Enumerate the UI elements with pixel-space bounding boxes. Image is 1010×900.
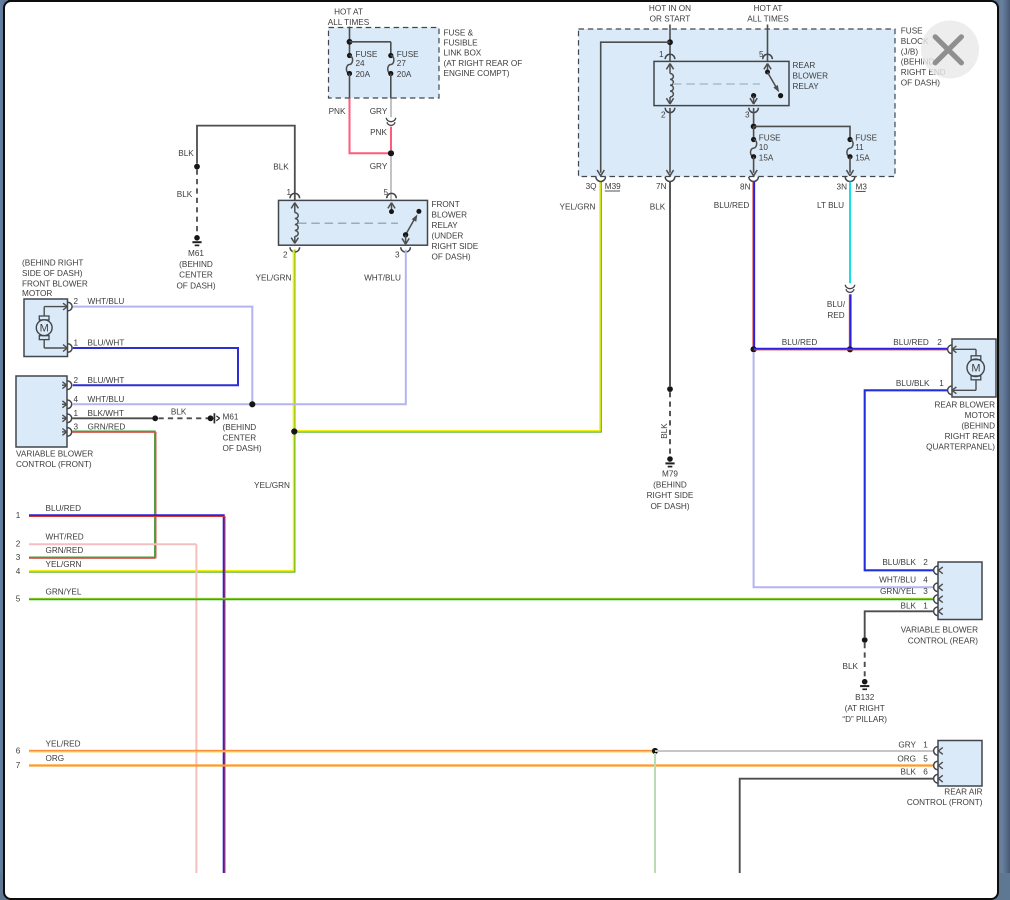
- svg-text:BLK: BLK: [273, 163, 289, 172]
- svg-text:ORG: ORG: [46, 754, 65, 763]
- svg-text:VARIABLE BLOWER: VARIABLE BLOWER: [16, 449, 93, 458]
- svg-text:BLK: BLK: [178, 149, 194, 158]
- svg-text:FUSE: FUSE: [759, 133, 781, 142]
- svg-text:GRN/RED: GRN/RED: [88, 423, 126, 432]
- svg-text:M39: M39: [605, 182, 621, 191]
- svg-text:PNK: PNK: [329, 107, 346, 116]
- svg-text:RELAY: RELAY: [432, 221, 459, 230]
- svg-text:BLK: BLK: [171, 407, 187, 416]
- svg-text:BLK: BLK: [843, 662, 859, 671]
- svg-text:OF DASH): OF DASH): [223, 444, 262, 453]
- svg-text:BLU/BLK: BLU/BLK: [882, 558, 916, 567]
- svg-text:3: 3: [745, 110, 750, 119]
- svg-text:M: M: [971, 363, 980, 375]
- svg-text:M79: M79: [662, 470, 678, 479]
- svg-text:5: 5: [16, 595, 21, 604]
- svg-text:(BEHIND: (BEHIND: [653, 480, 687, 489]
- svg-text:RIGHT REAR: RIGHT REAR: [945, 432, 995, 441]
- svg-text:8N: 8N: [740, 183, 751, 192]
- svg-text:2: 2: [74, 376, 79, 385]
- svg-text:BLU/RED: BLU/RED: [46, 504, 82, 513]
- svg-text:GRN/YEL: GRN/YEL: [46, 588, 82, 597]
- svg-text:5: 5: [383, 188, 388, 197]
- svg-text:BLOWER: BLOWER: [432, 211, 468, 220]
- svg-text:(UNDER: (UNDER: [432, 232, 464, 241]
- svg-text:10: 10: [759, 143, 769, 152]
- svg-text:BLU/RED: BLU/RED: [714, 201, 750, 210]
- svg-text:GRY: GRY: [370, 107, 388, 116]
- svg-text:7N: 7N: [656, 182, 667, 191]
- svg-text:CONTROL (FRONT): CONTROL (FRONT): [907, 798, 983, 807]
- svg-text:27: 27: [397, 59, 407, 68]
- svg-text:4: 4: [923, 575, 928, 584]
- svg-text:4: 4: [16, 567, 21, 576]
- svg-text:GRY: GRY: [370, 162, 388, 171]
- svg-text:3: 3: [16, 553, 21, 562]
- svg-text:VARIABLE BLOWER: VARIABLE BLOWER: [901, 626, 978, 635]
- svg-text:M: M: [40, 323, 49, 335]
- svg-text:BLK: BLK: [650, 203, 666, 212]
- svg-text:BLU/WHT: BLU/WHT: [88, 376, 125, 385]
- svg-text:WHT/BLU: WHT/BLU: [88, 297, 125, 306]
- svg-text:FRONT: FRONT: [432, 200, 460, 209]
- svg-text:PNK: PNK: [370, 128, 387, 137]
- svg-text:FUSE: FUSE: [901, 27, 923, 36]
- svg-text:BLU/: BLU/: [827, 300, 846, 309]
- svg-text:BLU/BLK: BLU/BLK: [896, 379, 930, 388]
- svg-text:RIGHT SIDE: RIGHT SIDE: [647, 491, 694, 500]
- svg-text:5: 5: [923, 754, 928, 763]
- svg-text:1: 1: [659, 50, 664, 59]
- svg-text:M61: M61: [188, 249, 204, 258]
- svg-text:20A: 20A: [356, 70, 371, 79]
- svg-text:ALL TIMES: ALL TIMES: [328, 18, 370, 27]
- svg-text:GRN/RED: GRN/RED: [46, 546, 84, 555]
- svg-text:ALL TIMES: ALL TIMES: [747, 15, 789, 24]
- svg-text:1: 1: [923, 740, 928, 749]
- svg-text:BLK/WHT: BLK/WHT: [88, 409, 124, 418]
- svg-text:FUSE: FUSE: [356, 50, 378, 59]
- svg-text:CENTER: CENTER: [179, 271, 213, 280]
- svg-text:OF DASH): OF DASH): [432, 253, 471, 262]
- svg-text:BLK: BLK: [901, 601, 917, 610]
- svg-text:2: 2: [923, 558, 928, 567]
- svg-text:2: 2: [661, 110, 666, 119]
- svg-text:1: 1: [16, 511, 21, 520]
- svg-text:FUSE &: FUSE &: [444, 28, 474, 37]
- svg-text:YEL/GRN: YEL/GRN: [560, 203, 596, 212]
- svg-text:FRONT BLOWER: FRONT BLOWER: [22, 280, 88, 289]
- svg-text:REAR: REAR: [793, 61, 816, 70]
- svg-text:11: 11: [855, 143, 864, 152]
- svg-text:QUARTERPANEL): QUARTERPANEL): [926, 443, 995, 452]
- svg-text:24: 24: [356, 59, 366, 68]
- svg-text:1: 1: [939, 379, 944, 388]
- svg-text:M61: M61: [223, 413, 239, 422]
- svg-text:3Q: 3Q: [586, 182, 597, 191]
- svg-text:(AT RIGHT REAR OF: (AT RIGHT REAR OF: [444, 59, 523, 68]
- svg-text:BLK: BLK: [177, 190, 193, 199]
- svg-text:RED: RED: [827, 311, 844, 320]
- svg-text:FUSIBLE: FUSIBLE: [444, 39, 479, 48]
- svg-text:HOT IN ON: HOT IN ON: [649, 4, 691, 13]
- svg-text:BLU/RED: BLU/RED: [893, 338, 929, 347]
- svg-text:BLOWER: BLOWER: [793, 71, 829, 80]
- svg-text:2: 2: [16, 540, 21, 549]
- svg-text:SIDE OF DASH): SIDE OF DASH): [22, 269, 83, 278]
- svg-text:15A: 15A: [855, 153, 870, 162]
- svg-text:YEL/GRN: YEL/GRN: [46, 560, 82, 569]
- svg-text:(BEHIND: (BEHIND: [223, 423, 257, 432]
- svg-text:WHT/RED: WHT/RED: [46, 533, 84, 542]
- svg-text:3: 3: [395, 251, 400, 260]
- svg-text:OF DASH): OF DASH): [650, 502, 689, 511]
- svg-text:(AT RIGHT: (AT RIGHT: [845, 704, 885, 713]
- svg-text:2: 2: [937, 338, 942, 347]
- svg-text:(J/B): (J/B): [901, 47, 919, 56]
- svg-text:HOT AT: HOT AT: [754, 4, 783, 13]
- svg-text:2: 2: [283, 251, 288, 260]
- svg-text:MOTOR: MOTOR: [22, 289, 52, 298]
- svg-text:YEL/GRN: YEL/GRN: [254, 481, 290, 490]
- svg-text:RIGHT SIDE: RIGHT SIDE: [432, 242, 479, 251]
- svg-text:ORG: ORG: [897, 754, 916, 763]
- svg-text:FUSE: FUSE: [855, 133, 877, 142]
- svg-text:(BEHIND: (BEHIND: [179, 260, 213, 269]
- svg-text:1: 1: [74, 339, 79, 348]
- svg-text:7: 7: [16, 761, 21, 770]
- svg-text:BLK: BLK: [660, 423, 669, 439]
- svg-text:WHT/BLU: WHT/BLU: [879, 575, 916, 584]
- svg-text:OF DASH): OF DASH): [176, 282, 215, 291]
- svg-text:CONTROL (FRONT): CONTROL (FRONT): [16, 460, 92, 469]
- svg-text:LT BLU: LT BLU: [817, 201, 844, 210]
- svg-text:WHT/BLU: WHT/BLU: [364, 274, 401, 283]
- svg-text:“D” PILLAR): “D” PILLAR): [842, 715, 887, 724]
- svg-text:ENGINE COMPT): ENGINE COMPT): [444, 69, 510, 78]
- svg-text:6: 6: [16, 747, 21, 756]
- svg-text:1: 1: [74, 409, 79, 418]
- svg-text:OF DASH): OF DASH): [901, 79, 940, 88]
- svg-text:BLU/RED: BLU/RED: [782, 338, 818, 347]
- svg-text:3N: 3N: [837, 183, 848, 192]
- svg-text:WHT/BLU: WHT/BLU: [88, 395, 125, 404]
- svg-text:BLU/WHT: BLU/WHT: [88, 339, 125, 348]
- svg-text:LINK BOX: LINK BOX: [444, 49, 482, 58]
- svg-text:1: 1: [923, 601, 928, 610]
- svg-text:M3: M3: [856, 183, 868, 192]
- svg-text:RELAY: RELAY: [793, 82, 820, 91]
- svg-text:BLK: BLK: [901, 767, 917, 776]
- svg-text:(BEHIND RIGHT: (BEHIND RIGHT: [22, 259, 83, 268]
- svg-text:FUSE: FUSE: [397, 50, 419, 59]
- svg-text:GRY: GRY: [898, 740, 916, 749]
- svg-text:3: 3: [923, 587, 928, 596]
- svg-text:CENTER: CENTER: [223, 434, 257, 443]
- svg-text:HOT AT: HOT AT: [334, 8, 363, 17]
- svg-text:5: 5: [759, 50, 764, 59]
- svg-text:OR START: OR START: [650, 15, 691, 24]
- svg-text:CONTROL (REAR): CONTROL (REAR): [908, 636, 978, 645]
- svg-text:YEL/GRN: YEL/GRN: [256, 274, 292, 283]
- svg-text:MOTOR: MOTOR: [965, 411, 995, 420]
- svg-text:GRN/YEL: GRN/YEL: [880, 587, 916, 596]
- svg-text:REAR BLOWER: REAR BLOWER: [934, 400, 995, 409]
- svg-text:3: 3: [74, 423, 79, 432]
- svg-text:B132: B132: [855, 693, 875, 702]
- svg-text:1: 1: [286, 188, 291, 197]
- svg-text:4: 4: [74, 395, 79, 404]
- svg-text:YEL/RED: YEL/RED: [46, 740, 81, 749]
- svg-text:(BEHIND: (BEHIND: [961, 422, 995, 431]
- svg-text:6: 6: [923, 767, 928, 776]
- svg-text:20A: 20A: [397, 70, 412, 79]
- svg-text:15A: 15A: [759, 153, 774, 162]
- svg-text:REAR AIR: REAR AIR: [944, 787, 982, 796]
- svg-text:2: 2: [74, 297, 79, 306]
